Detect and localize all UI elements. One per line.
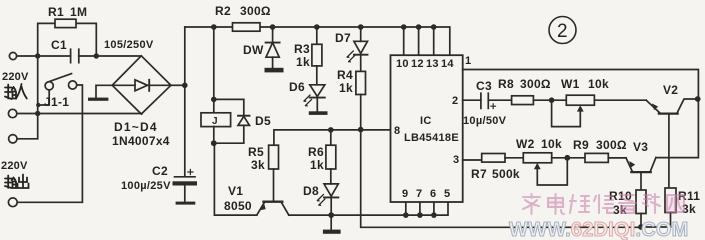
svg-text:8050: 8050 bbox=[224, 199, 252, 213]
resistor R4 bbox=[360, 55, 362, 72]
svg-text:R3: R3 bbox=[294, 42, 310, 56]
svg-text:300Ω: 300Ω bbox=[596, 138, 627, 152]
capacitor C1 bbox=[71, 49, 79, 62]
node V2 collector bbox=[695, 96, 701, 102]
svg-text:1: 1 bbox=[465, 55, 471, 67]
node R3 tap bbox=[314, 24, 320, 30]
svg-text:C1: C1 bbox=[51, 38, 67, 52]
svg-text:10k: 10k bbox=[588, 77, 609, 91]
svg-text:IC: IC bbox=[420, 115, 432, 127]
svg-text:R4: R4 bbox=[337, 68, 353, 82]
svg-text:V2: V2 bbox=[663, 83, 678, 97]
wire input A to C1 bbox=[17, 55, 71, 57]
svg-text:R6: R6 bbox=[308, 145, 324, 159]
potentiometer W2 bbox=[523, 153, 551, 163]
svg-text:1k: 1k bbox=[310, 158, 324, 172]
terminal output D bbox=[8, 198, 17, 207]
svg-text:W1: W1 bbox=[561, 77, 580, 91]
svg-text:D7: D7 bbox=[335, 31, 351, 45]
svg-text:220V: 220V bbox=[2, 71, 29, 83]
node relay bottom bbox=[211, 140, 217, 146]
svg-text:300Ω: 300Ω bbox=[520, 77, 551, 91]
node pin10 tap bbox=[401, 24, 407, 30]
svg-text:C2: C2 bbox=[152, 164, 168, 178]
svg-text:D5: D5 bbox=[255, 114, 271, 128]
svg-text:105/250V: 105/250V bbox=[104, 39, 154, 51]
svg-text:R1: R1 bbox=[48, 5, 64, 19]
watermark pink hanzi bbox=[523, 194, 684, 214]
svg-text:13: 13 bbox=[426, 58, 439, 70]
node ground tap bbox=[328, 212, 334, 218]
node R1C1 right bbox=[94, 53, 99, 58]
node pin6 bbox=[431, 212, 437, 218]
node R10 bottom bbox=[638, 224, 644, 230]
capacitor C2 bbox=[184, 85, 186, 176]
wire output D to switch bbox=[17, 85, 82, 202]
chassis bar at bridge left bbox=[96, 85, 112, 97]
svg-text:DW: DW bbox=[243, 43, 264, 57]
jog to D5 bbox=[214, 99, 244, 115]
svg-text:D8: D8 bbox=[303, 184, 319, 198]
top rail bbox=[185, 27, 450, 55]
svg-text:10µ/50V: 10µ/50V bbox=[463, 115, 507, 127]
transistor V1 bbox=[264, 201, 283, 203]
svg-text:2: 2 bbox=[452, 95, 458, 107]
resistor R6 bbox=[330, 130, 332, 145]
diode D5 bbox=[238, 115, 250, 117]
svg-text:LB45418E: LB45418E bbox=[404, 132, 459, 144]
bottom rail right of V1 bbox=[289, 202, 448, 215]
svg-text:5: 5 bbox=[444, 188, 450, 200]
svg-text:3: 3 bbox=[453, 154, 459, 166]
svg-text:8: 8 bbox=[394, 125, 400, 137]
terminal input B bbox=[8, 109, 16, 117]
svg-text:9: 9 bbox=[402, 188, 408, 200]
ground bbox=[330, 215, 332, 230]
svg-text:R8: R8 bbox=[498, 77, 514, 91]
resistor R1 bbox=[38, 23, 55, 56]
pin8 rail bbox=[274, 130, 391, 145]
node W2 tap bbox=[564, 155, 570, 161]
resistor R10 bbox=[636, 190, 646, 214]
node pin9 bbox=[403, 212, 409, 218]
LED D8 bbox=[324, 184, 338, 196]
switch J1-1 bbox=[45, 82, 53, 90]
node R6 top bbox=[328, 127, 334, 133]
LED D7 bbox=[360, 27, 362, 41]
svg-text:10: 10 bbox=[396, 58, 409, 70]
hanzi shu-ru (input) bbox=[5, 84, 27, 99]
svg-text:D1~D4: D1~D4 bbox=[114, 120, 158, 134]
wire column left bbox=[17, 56, 38, 139]
svg-text:R9: R9 bbox=[573, 138, 589, 152]
node W1 tap bbox=[549, 97, 555, 103]
svg-text:1N4007x4: 1N4007x4 bbox=[112, 134, 170, 148]
svg-text:R5: R5 bbox=[248, 145, 264, 159]
transistor V3 bbox=[631, 171, 650, 173]
svg-text:3k: 3k bbox=[251, 158, 265, 172]
node pin7 bbox=[417, 212, 423, 218]
svg-text:WWW.62DIQI.COM: WWW.62DIQI.COM bbox=[509, 219, 688, 240]
svg-text:500k: 500k bbox=[492, 167, 520, 181]
svg-text:R7: R7 bbox=[471, 167, 487, 181]
svg-text:10k: 10k bbox=[541, 137, 562, 151]
pin3 row: resistor R7 bbox=[463, 159, 482, 161]
svg-text:2: 2 bbox=[557, 21, 568, 42]
wire input B to bridge bottom bbox=[17, 113, 142, 115]
resistor R9 bbox=[585, 153, 608, 162]
resistor R5 bbox=[269, 145, 279, 169]
svg-text:R2: R2 bbox=[215, 4, 231, 18]
svg-text:1k: 1k bbox=[296, 55, 310, 69]
relay J coil bbox=[213, 99, 215, 112]
LED D6 bbox=[310, 85, 325, 97]
svg-text:C3: C3 bbox=[476, 79, 492, 93]
hanzi shu-chu (output) bbox=[5, 175, 29, 189]
svg-text:1M: 1M bbox=[70, 5, 87, 19]
bridge rectifier D1-D4 bbox=[112, 56, 171, 114]
wire relay bottom down bbox=[214, 143, 256, 215]
wire R2 left down to relay bbox=[213, 27, 215, 99]
circled number 2 bbox=[549, 17, 576, 44]
svg-text:7: 7 bbox=[416, 188, 422, 200]
node DW tap bbox=[270, 24, 276, 30]
IC bottom pin stubs bbox=[406, 202, 434, 215]
terminal output C bbox=[9, 135, 17, 143]
svg-text:300Ω: 300Ω bbox=[240, 4, 271, 18]
node pin12 tap bbox=[416, 24, 422, 30]
terminal input A bbox=[9, 52, 16, 59]
svg-text:J1-1: J1-1 bbox=[44, 95, 69, 109]
node column mid bbox=[35, 111, 40, 116]
svg-text:V3: V3 bbox=[633, 140, 648, 154]
resistor R3 bbox=[316, 27, 318, 44]
node R4 bottom bbox=[358, 127, 364, 133]
svg-text:220V: 220V bbox=[1, 160, 28, 172]
svg-text:1k: 1k bbox=[339, 81, 353, 95]
wire bridge plus up to top rail bbox=[184, 27, 186, 85]
svg-text:14: 14 bbox=[441, 58, 454, 70]
node bridge output bbox=[171, 84, 185, 86]
transistor V2 bbox=[659, 112, 678, 114]
node pin13 tap bbox=[431, 24, 437, 30]
resistor R2 bbox=[233, 23, 261, 31]
svg-text:V1: V1 bbox=[228, 184, 243, 198]
svg-text:W2: W2 bbox=[516, 137, 535, 151]
svg-text:6: 6 bbox=[430, 188, 436, 200]
potentiometer W1 bbox=[566, 95, 594, 105]
svg-text:D6: D6 bbox=[289, 80, 305, 94]
node D7 tap bbox=[358, 24, 364, 30]
lower rail bbox=[361, 130, 671, 228]
pin2 row: capacitor C3 bbox=[463, 99, 481, 101]
node R2 left bbox=[211, 24, 217, 30]
wire C1 right to bridge top bbox=[79, 55, 142, 57]
node R1C1 left bbox=[35, 53, 40, 58]
IC top pin stubs bbox=[404, 27, 434, 55]
IC U1 box bbox=[391, 55, 463, 202]
svg-text:100µ/25V: 100µ/25V bbox=[121, 180, 171, 192]
svg-text:J: J bbox=[212, 116, 218, 127]
zener DW bbox=[272, 27, 274, 43]
resistor R8 bbox=[512, 96, 534, 105]
svg-text:12: 12 bbox=[411, 58, 424, 70]
wire pin1 top right bbox=[463, 70, 699, 158]
resistor R11 bbox=[665, 188, 676, 213]
